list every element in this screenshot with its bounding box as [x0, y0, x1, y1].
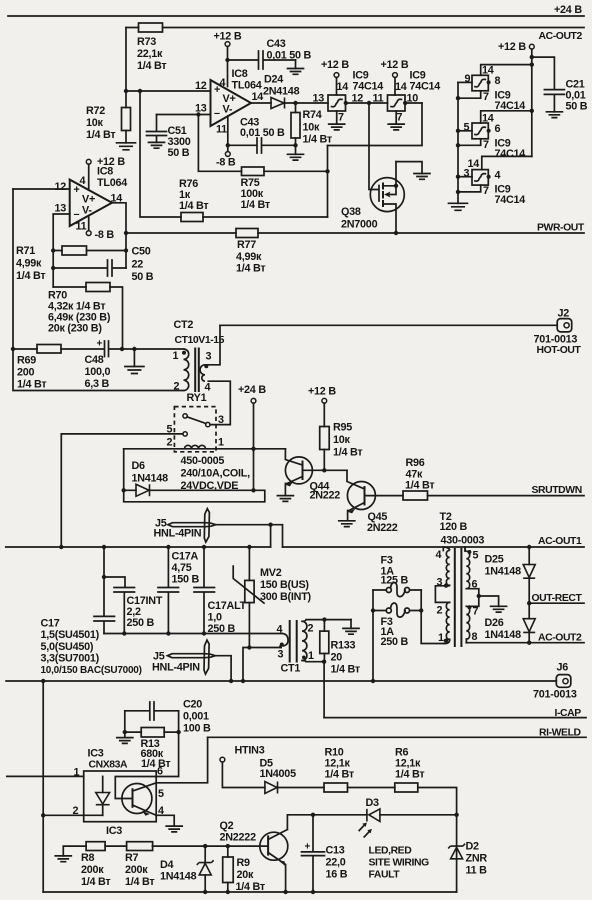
+12V terminal for lower IC8: [86, 156, 125, 190]
resistor R7: [125, 842, 154, 888]
svg-text:D2: D2: [466, 841, 480, 853]
ground inverter1 pin 7: [329, 111, 345, 130]
svg-text:IC8: IC8: [232, 68, 248, 80]
svg-text:AC-OUT2: AC-OUT2: [539, 31, 583, 42]
svg-text:R77: R77: [237, 239, 256, 251]
svg-text:11 В: 11 В: [466, 865, 488, 877]
svg-text:50 В: 50 В: [168, 147, 190, 159]
svg-text:300 В(INT): 300 В(INT): [260, 591, 312, 603]
resistor R8 with ground: [55, 842, 126, 888]
svg-text:11: 11: [216, 124, 227, 136]
+12V terminal right inverter stack: [498, 41, 534, 156]
svg-text:1: 1: [438, 632, 444, 644]
svg-text:1N4148: 1N4148: [485, 566, 522, 578]
svg-text:V-: V-: [82, 205, 92, 217]
wire R73 to R72 and node: [124, 28, 128, 108]
wire left rail J6-line to bottom rail: [42, 681, 44, 892]
svg-text:22,0: 22,0: [326, 857, 346, 869]
svg-text:HOT-OUT: HOT-OUT: [537, 345, 582, 356]
svg-text:R74: R74: [303, 109, 322, 121]
svg-text:150 В: 150 В: [172, 574, 200, 586]
wire oscillator feedback top to inverter2 output: [328, 103, 423, 146]
wire C20/R13 to IC3 pin6: [156, 711, 181, 777]
wire pin12 to left rail: [13, 188, 70, 190]
svg-text:1/4 Вт: 1/4 Вт: [331, 664, 360, 676]
svg-text:5: 5: [464, 122, 470, 134]
wire inverter2 output to feedback: [405, 102, 422, 104]
svg-text:701-0013: 701-0013: [533, 689, 577, 701]
diode D26: [485, 603, 536, 643]
svg-text:7: 7: [483, 185, 489, 197]
svg-text:50 В: 50 В: [132, 271, 154, 283]
svg-text:200: 200: [17, 367, 35, 379]
svg-text:C17: C17: [41, 618, 60, 630]
schmitt inverter IC9 pin11-10: [388, 93, 419, 112]
svg-text:2N222: 2N222: [367, 522, 398, 534]
svg-text:74C14: 74C14: [410, 81, 441, 93]
svg-text:7: 7: [483, 91, 489, 103]
svg-text:74C14: 74C14: [495, 148, 526, 160]
wire pin13 node vertical: [51, 214, 70, 287]
wire C17 bottom line: [104, 631, 282, 635]
svg-text:1: 1: [308, 650, 314, 662]
-8V terminal lower IC8 pin 11: [86, 216, 114, 241]
wire pin13 down to R75 line: [198, 115, 241, 172]
svg-text:4,75: 4,75: [172, 562, 192, 574]
relay coil RY1: [124, 445, 286, 451]
transformer T2 core: [455, 549, 462, 646]
transformer T2 secondary: [465, 547, 507, 643]
wire RY1 pin5 to AC-OUT1: [61, 434, 183, 547]
svg-text:14: 14: [252, 91, 264, 103]
svg-text:1/4 Вт: 1/4 Вт: [333, 447, 362, 459]
svg-text:13: 13: [313, 93, 325, 105]
svg-text:6: 6: [472, 579, 478, 591]
svg-text:7: 7: [483, 139, 489, 151]
ground under R74 / C43 lower: [288, 143, 304, 160]
svg-text:+12 В: +12 В: [321, 59, 349, 71]
svg-text:R69: R69: [17, 355, 36, 367]
svg-text:+: +: [97, 339, 103, 350]
svg-text:701-0013: 701-0013: [534, 334, 578, 346]
capacitor C17: [41, 547, 142, 676]
svg-text:3: 3: [206, 351, 212, 363]
resistor R13: [125, 728, 179, 771]
wire bottom rail: [43, 890, 456, 894]
svg-text:SITE WIRING: SITE WIRING: [369, 858, 430, 869]
capacitor C17ALT: [194, 547, 247, 635]
wire R76 branch from pin12 node: [140, 91, 181, 217]
svg-text:120 В: 120 В: [440, 521, 468, 533]
svg-text:6: 6: [495, 123, 501, 135]
svg-text:-8 В: -8 В: [216, 157, 236, 169]
svg-text:-8 В: -8 В: [95, 229, 115, 241]
connector J6: [533, 662, 577, 701]
svg-text:5: 5: [473, 550, 479, 562]
svg-text:3: 3: [437, 577, 443, 589]
svg-text:14: 14: [395, 81, 407, 93]
wire IC3 pin2: [41, 813, 103, 817]
svg-text:250 В: 250 В: [381, 636, 409, 648]
svg-text:7: 7: [473, 606, 479, 618]
svg-text:1/4 Вт: 1/4 Вт: [405, 480, 434, 492]
diode D5: [260, 758, 325, 794]
svg-text:–: –: [74, 209, 80, 221]
schmitt inverter IC9 pin3-4: [458, 156, 532, 206]
relay RY1: [167, 392, 225, 452]
svg-text:1: 1: [218, 437, 224, 449]
svg-text:24VDC,VDE: 24VDC,VDE: [181, 480, 239, 492]
net AC-OUT2 bottom: [466, 633, 584, 645]
svg-text:R72: R72: [86, 105, 105, 117]
svg-text:11: 11: [76, 221, 87, 233]
svg-text:D24: D24: [264, 74, 283, 86]
wire CT2 pin3 to J2 line: [205, 325, 220, 365]
capacitor C43 upper: [228, 38, 312, 69]
current transformer CT1: [243, 617, 351, 681]
capacitor C48 polarized: [85, 339, 184, 391]
svg-text:R133: R133: [331, 640, 356, 652]
svg-text:2N4148: 2N4148: [263, 86, 300, 98]
svg-text:6,3 В: 6,3 В: [85, 378, 110, 390]
resistor R73: [137, 23, 166, 72]
resistor R76: [179, 178, 208, 222]
svg-text:R9: R9: [237, 857, 251, 869]
svg-text:1: 1: [173, 350, 179, 362]
svg-text:D4: D4: [160, 859, 174, 871]
svg-text:D26: D26: [485, 617, 504, 629]
svg-text:Q38: Q38: [341, 206, 361, 218]
svg-text:250 В: 250 В: [127, 617, 155, 629]
wire inverter1 out to inverter2 in: [346, 93, 388, 106]
svg-text:Q2: Q2: [220, 820, 234, 832]
ground for C20/R13: [117, 711, 133, 744]
svg-text:1/4 Вт: 1/4 Вт: [86, 129, 115, 141]
resistor R9: [223, 846, 265, 893]
svg-text:2: 2: [308, 623, 314, 635]
diode D25: [485, 547, 536, 603]
ground on C48/CT2 line: [125, 349, 144, 374]
svg-text:J2: J2: [558, 308, 570, 320]
svg-text:1/4 Вт: 1/4 Вт: [179, 200, 208, 212]
LED D3: [313, 797, 457, 837]
left rail down to CT2 pin2: [11, 189, 184, 391]
resistor R75: [241, 167, 270, 211]
svg-text:AC-OUT1: AC-OUT1: [538, 536, 582, 547]
fuse F3 250V: [373, 603, 421, 648]
resistor R6: [395, 747, 459, 893]
svg-text:4: 4: [80, 175, 86, 187]
svg-text:D25: D25: [485, 554, 504, 566]
svg-text:4,99к: 4,99к: [16, 258, 42, 270]
svg-text:+12 В: +12 В: [214, 31, 242, 43]
relay part info label: [181, 455, 251, 492]
svg-text:2: 2: [437, 605, 443, 617]
svg-text:14: 14: [482, 113, 494, 125]
connector J2: [534, 308, 582, 357]
svg-text:1,5(SU4501): 1,5(SU4501): [41, 629, 100, 641]
capacitor C20: [125, 699, 211, 735]
svg-text:CT10V1-15: CT10V1-15: [175, 335, 225, 346]
svg-text:125 В: 125 В: [381, 575, 409, 587]
svg-text:HNL-4PIN: HNL-4PIN: [152, 662, 200, 674]
transistor Q45: [339, 470, 403, 534]
net J6 line: [6, 679, 556, 683]
zener diode D4: [160, 846, 214, 892]
resistor R72: [86, 105, 131, 141]
svg-text:C43: C43: [267, 38, 286, 50]
svg-text:HNL-4PIN: HNL-4PIN: [154, 528, 202, 540]
svg-text:1/4 Вт: 1/4 Вт: [17, 379, 46, 391]
resistor R71: [16, 245, 126, 282]
+24V terminal: [238, 384, 266, 490]
svg-text:R73: R73: [137, 36, 156, 48]
svg-text:C17ALT: C17ALT: [208, 600, 247, 612]
wire IC3 pin1 from left edge: [7, 775, 84, 777]
svg-text:100,0: 100,0: [85, 366, 111, 378]
wire op-amp pin13 input line: [157, 112, 211, 116]
svg-text:1/4 Вт: 1/4 Вт: [325, 769, 354, 781]
svg-text:0,01 50 В: 0,01 50 В: [267, 50, 312, 62]
svg-text:5: 5: [158, 788, 164, 800]
capacitor C17INT: [104, 577, 163, 634]
svg-text:TL064: TL064: [232, 80, 262, 92]
capacitor C43 lower: [228, 117, 296, 154]
svg-text:C20: C20: [183, 699, 202, 711]
svg-text:430-0003: 430-0003: [441, 535, 485, 547]
net I-CAP: [324, 708, 586, 719]
resistor R95 with +12V terminal: [308, 386, 362, 471]
svg-text:+: +: [305, 842, 311, 853]
zener diode D2: [448, 841, 487, 877]
svg-text:2N2222: 2N2222: [220, 832, 257, 844]
svg-text:11: 11: [373, 93, 384, 105]
svg-text:+12 В: +12 В: [97, 156, 125, 168]
svg-text:RY1: RY1: [187, 392, 207, 404]
svg-text:14: 14: [337, 81, 349, 93]
svg-text:CNX83A: CNX83A: [89, 760, 128, 771]
svg-text:74C14: 74C14: [495, 194, 526, 206]
svg-text:1N4148: 1N4148: [160, 871, 197, 883]
svg-text:LED,RED: LED,RED: [369, 846, 413, 857]
svg-text:2: 2: [167, 437, 173, 449]
svg-text:R7: R7: [125, 852, 139, 864]
svg-text:I-CAP: I-CAP: [555, 708, 582, 719]
op-amp IC8 pin 11 and -8V terminal: [216, 116, 236, 169]
svg-text:2N7000: 2N7000: [341, 219, 378, 231]
svg-text:14: 14: [482, 65, 494, 77]
svg-text:7: 7: [397, 112, 403, 124]
svg-text:1/4 Вт: 1/4 Вт: [395, 769, 424, 781]
svg-text:+12 В: +12 В: [381, 59, 409, 71]
svg-text:12: 12: [55, 181, 67, 193]
terminal HTIN3: [220, 745, 265, 788]
svg-text:4,99к: 4,99к: [236, 251, 262, 263]
resistor R70: [48, 283, 123, 350]
schmitt inverter IC9 pin9-8: [458, 65, 532, 113]
net +24V top bus: [8, 4, 584, 16]
svg-text:–: –: [214, 108, 220, 120]
wire Q2 base line: [152, 844, 268, 848]
transistor Q44: [277, 449, 347, 502]
varistor MV2: [233, 547, 311, 648]
resistor R133: [320, 620, 360, 676]
wire R133/CT1 to I-CAP: [323, 662, 325, 718]
svg-text:6: 6: [157, 766, 163, 778]
svg-text:D3: D3: [366, 797, 380, 809]
ground inverter2 pin 7: [388, 111, 404, 130]
svg-text:20к (230 В): 20к (230 В): [48, 323, 102, 335]
svg-text:+12 В: +12 В: [308, 386, 336, 398]
svg-text:13: 13: [55, 203, 67, 215]
svg-text:150 В(US): 150 В(US): [260, 579, 309, 591]
svg-text:100 В: 100 В: [183, 723, 211, 735]
schmitt inverter IC9 pin5-6: [458, 111, 532, 160]
svg-text:3: 3: [278, 649, 284, 661]
svg-text:200к: 200к: [125, 864, 148, 876]
svg-text:1/4 Вт: 1/4 Вт: [16, 270, 45, 282]
op-amp IC8 lower section: [55, 166, 128, 233]
svg-text:1/4 Вт: 1/4 Вт: [303, 134, 332, 146]
svg-text:R71: R71: [16, 245, 35, 257]
svg-text:C50: C50: [132, 246, 151, 258]
ground under R72: [117, 131, 136, 150]
svg-text:R8: R8: [81, 852, 95, 864]
+12V terminal inverter 1: [321, 59, 383, 95]
svg-text:4: 4: [436, 549, 442, 561]
wire op-amp pin12 input line: [126, 89, 211, 93]
svg-text:1/4 Вт: 1/4 Вт: [236, 263, 265, 275]
svg-text:+24 В: +24 В: [554, 4, 582, 16]
svg-text:AC-OUT2: AC-OUT2: [538, 633, 582, 644]
wire Q38 drain to ground: [396, 162, 430, 180]
svg-text:12: 12: [195, 80, 207, 92]
svg-text:IC3: IC3: [88, 748, 104, 760]
svg-text:2: 2: [174, 381, 180, 393]
svg-text:10к: 10к: [303, 122, 321, 134]
+12V terminal for IC8 pin 4: [214, 31, 242, 87]
+12V terminal inverter 2: [381, 59, 441, 95]
net PWR-OUT: [124, 223, 585, 236]
svg-text:450-0005: 450-0005: [181, 455, 225, 467]
transistor Q2: [220, 813, 316, 892]
svg-text:C13: C13: [326, 845, 345, 857]
svg-text:V-: V-: [223, 104, 233, 116]
svg-text:J6: J6: [557, 662, 569, 674]
wire fuse bus left: [371, 590, 375, 681]
svg-text:1N4148: 1N4148: [485, 629, 522, 641]
svg-text:PWR-OUT: PWR-OUT: [537, 223, 585, 234]
svg-text:TL064: TL064: [97, 177, 127, 189]
schmitt inverter IC9 pin13-12: [313, 93, 364, 112]
svg-text:4: 4: [495, 170, 501, 182]
wire lower op-amp output node: [112, 203, 128, 268]
capacitor C50: [53, 246, 154, 284]
svg-text:4: 4: [277, 624, 283, 636]
ground for C43 upper: [288, 60, 304, 74]
svg-text:4: 4: [220, 77, 226, 89]
svg-text:22: 22: [132, 259, 144, 271]
svg-text:C48: C48: [85, 354, 104, 366]
IC3 internal LED: [96, 776, 110, 815]
svg-text:1/4 Вт: 1/4 Вт: [81, 876, 110, 888]
wire IC3 pin5 to RI-WELD: [156, 737, 207, 783]
resistor R69: [13, 345, 104, 391]
fuse F3 125V: [373, 555, 421, 597]
optocoupler IC3: [73, 748, 165, 838]
svg-text:200к: 200к: [81, 864, 104, 876]
svg-text:1/4 Вт: 1/4 Вт: [241, 199, 270, 211]
op-amp IC8 upper section: [195, 68, 263, 136]
svg-text:D6: D6: [132, 460, 146, 472]
svg-text:CT1: CT1: [281, 663, 301, 675]
svg-text:10к: 10к: [333, 434, 351, 446]
svg-text:13: 13: [195, 103, 207, 115]
svg-text:FAULT: FAULT: [369, 870, 401, 881]
svg-text:20: 20: [331, 652, 343, 664]
svg-text:3,3(SU7001): 3,3(SU7001): [41, 653, 100, 665]
diode D6: [122, 449, 265, 502]
svg-text:MV2: MV2: [260, 567, 282, 579]
svg-text:16 В: 16 В: [326, 869, 348, 881]
ground IC3 pin4: [156, 815, 182, 832]
svg-text:1/4 Вт: 1/4 Вт: [141, 758, 170, 770]
svg-text:9: 9: [465, 73, 471, 85]
svg-text:1N4005: 1N4005: [260, 768, 297, 780]
svg-text:ZNR: ZNR: [466, 853, 488, 865]
svg-text:R95: R95: [333, 422, 352, 434]
svg-text:7: 7: [338, 112, 344, 124]
svg-text:IC3: IC3: [106, 825, 122, 837]
svg-text:0,001: 0,001: [183, 711, 209, 723]
wire R76 to feedback vertical: [203, 216, 328, 218]
ground for CT1 pin2: [343, 620, 359, 635]
svg-text:50 В: 50 В: [566, 101, 588, 113]
resistor R74: [291, 103, 332, 146]
text LED RED SITE WIRING FAULT: [369, 846, 430, 881]
svg-text:1/4 Вт: 1/4 Вт: [125, 876, 154, 888]
transformer T2 primary: [435, 511, 484, 644]
svg-text:1/4 Вт: 1/4 Вт: [137, 60, 166, 72]
capacitor C17A: [158, 547, 200, 634]
connector J5 lower HNL-4PIN: [152, 640, 231, 681]
net OUT-RECT: [527, 593, 584, 605]
svg-text:R96: R96: [406, 457, 425, 469]
svg-text:20к: 20к: [237, 869, 255, 881]
resistor R10: [324, 747, 395, 793]
input bus for spare inverters: [456, 82, 460, 203]
svg-text:0,01 50 В: 0,01 50 В: [240, 127, 285, 139]
diode D24: [251, 74, 328, 109]
svg-text:+24 В: +24 В: [238, 384, 266, 396]
svg-text:HTIN3: HTIN3: [235, 745, 265, 757]
transformer CT2: [173, 319, 225, 394]
net RI-WELD: [208, 728, 586, 739]
connector J5 upper HNL-4PIN: [154, 509, 283, 547]
svg-text:10,0/150 BAC(SU7000): 10,0/150 BAC(SU7000): [41, 665, 142, 676]
svg-text:RI-WELD: RI-WELD: [539, 728, 582, 739]
svg-text:1,0: 1,0: [208, 612, 223, 624]
svg-text:OUT-RECT: OUT-RECT: [532, 593, 583, 604]
svg-text:SRUTDWN: SRUTDWN: [532, 485, 582, 496]
capacitor C13 polarized: [302, 815, 348, 892]
svg-text:8: 8: [495, 75, 501, 87]
ground at bottom of inverter input bus: [449, 203, 468, 210]
capacitor C21: [532, 57, 588, 118]
svg-text:5,0(SU450): 5,0(SU450): [41, 641, 94, 653]
svg-text:8: 8: [472, 631, 478, 643]
svg-text:74C14: 74C14: [353, 81, 384, 93]
